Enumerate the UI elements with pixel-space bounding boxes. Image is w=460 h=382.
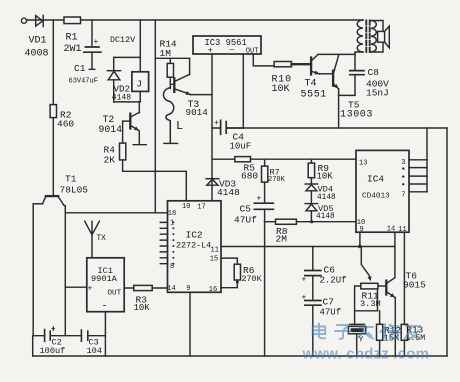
- svg-text:T4: T4: [305, 78, 317, 89]
- svg-text:3: 3: [401, 159, 405, 167]
- svg-text:C1: C1: [74, 63, 86, 74]
- svg-text:4148: 4148: [112, 94, 131, 103]
- svg-text:+: +: [88, 284, 93, 293]
- svg-text:+: +: [257, 195, 262, 204]
- svg-text:13003: 13003: [340, 110, 373, 121]
- svg-text:100uf: 100uf: [40, 346, 66, 356]
- svg-text:10: 10: [182, 203, 190, 211]
- svg-text:4008: 4008: [25, 49, 49, 60]
- svg-text:15nJ: 15nJ: [366, 88, 389, 99]
- svg-text:CD4013: CD4013: [362, 192, 390, 200]
- svg-text:9014: 9014: [186, 107, 209, 118]
- svg-text:+: +: [94, 38, 99, 47]
- svg-text:9: 9: [360, 226, 364, 234]
- svg-text:+: +: [51, 326, 56, 334]
- svg-text:OUT: OUT: [246, 47, 259, 55]
- svg-text:10K: 10K: [272, 84, 290, 95]
- svg-text:2272-L4: 2272-L4: [176, 240, 211, 250]
- svg-text:18: 18: [168, 210, 176, 218]
- svg-text:270K: 270K: [268, 176, 286, 184]
- svg-text:4148: 4148: [316, 213, 335, 221]
- svg-text:1M: 1M: [160, 48, 172, 59]
- svg-text:7: 7: [401, 191, 405, 199]
- svg-text:C6: C6: [324, 264, 336, 275]
- svg-text:47Uf: 47Uf: [234, 214, 257, 225]
- svg-text:16: 16: [209, 286, 217, 294]
- svg-text:C8: C8: [368, 67, 380, 78]
- svg-text:4148: 4148: [217, 187, 240, 198]
- svg-text:15: 15: [210, 255, 218, 263]
- svg-text:+: +: [208, 45, 213, 55]
- svg-text:IC2: IC2: [186, 229, 203, 240]
- svg-text:VD1: VD1: [29, 36, 47, 47]
- svg-text:11: 11: [398, 226, 406, 234]
- svg-text:104: 104: [87, 346, 102, 356]
- svg-text:9014: 9014: [99, 124, 123, 135]
- svg-text:R1: R1: [66, 33, 78, 44]
- svg-text:VD4: VD4: [318, 184, 333, 194]
- svg-text:4148: 4148: [317, 194, 336, 202]
- svg-text:C5: C5: [240, 203, 252, 214]
- svg-text:TX: TX: [97, 235, 107, 243]
- svg-text:9901A: 9901A: [91, 274, 118, 284]
- svg-text:OUT: OUT: [108, 289, 122, 297]
- svg-text:+: +: [302, 276, 307, 285]
- svg-text:63V47uF: 63V47uF: [69, 77, 98, 85]
- svg-text:—: —: [229, 46, 235, 55]
- svg-text:1: 1: [170, 219, 174, 227]
- svg-text:14: 14: [387, 226, 395, 234]
- svg-text:www. cndzz .com: www. cndzz .com: [302, 346, 430, 363]
- svg-text:IC4: IC4: [367, 173, 384, 184]
- svg-text:78L05: 78L05: [60, 184, 89, 195]
- svg-text:11: 11: [211, 246, 219, 254]
- svg-text:2K: 2K: [104, 154, 116, 165]
- svg-text:T1: T1: [65, 173, 77, 184]
- svg-text:13: 13: [359, 159, 367, 167]
- svg-text:10uF: 10uF: [230, 141, 252, 151]
- svg-text:5551: 5551: [301, 90, 327, 101]
- svg-text:J: J: [136, 79, 142, 90]
- svg-text:47Uf: 47Uf: [320, 307, 342, 317]
- svg-text:14: 14: [167, 285, 175, 293]
- svg-text:+: +: [214, 119, 219, 128]
- svg-text:10K: 10K: [134, 303, 151, 313]
- svg-text:+: +: [302, 294, 307, 303]
- svg-text:460: 460: [57, 119, 74, 130]
- svg-text:2M: 2M: [276, 233, 288, 244]
- svg-text:17: 17: [197, 203, 205, 211]
- svg-text:8: 8: [170, 263, 174, 271]
- svg-text:2W1: 2W1: [64, 44, 82, 55]
- svg-text:DC12V: DC12V: [110, 35, 135, 45]
- svg-text:2.2Uf: 2.2Uf: [320, 275, 347, 285]
- svg-text:-: -: [102, 301, 108, 312]
- svg-text:3.3M: 3.3M: [360, 299, 381, 309]
- svg-text:270K: 270K: [242, 274, 263, 284]
- svg-text:10K: 10K: [317, 171, 334, 181]
- svg-text:L: L: [176, 119, 183, 133]
- svg-text:9015: 9015: [403, 279, 426, 290]
- svg-text:680: 680: [241, 170, 258, 181]
- svg-text:9: 9: [186, 285, 190, 293]
- svg-text:C7: C7: [323, 296, 334, 307]
